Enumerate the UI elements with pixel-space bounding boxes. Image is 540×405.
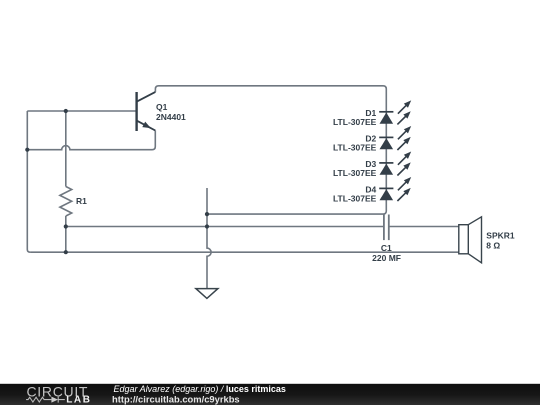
svg-text:C1: C1 <box>381 243 392 253</box>
svg-text:LTL-307EE: LTL-307EE <box>333 168 377 178</box>
junction dot (base / R1 top) <box>64 109 68 113</box>
transistor Q1 <box>137 92 156 131</box>
junction dot (LED return / ground stub) <box>205 212 209 216</box>
wire emitter to left rail with hop over R1 <box>27 131 155 150</box>
speaker SPKR1 <box>459 217 482 263</box>
logo diode triangle <box>51 397 58 403</box>
svg-text:SPKR1: SPKR1 <box>486 231 515 241</box>
LED D1 <box>379 100 411 124</box>
capacitor C1 <box>384 215 389 241</box>
LED D2 <box>379 126 411 150</box>
wire R1 bottom lead <box>65 216 67 252</box>
LED D4 <box>379 177 411 201</box>
wire left vertical rail <box>27 111 30 252</box>
junction dot (R1 / bottom rail) <box>64 250 68 254</box>
wire LED string vertical <box>207 112 386 214</box>
wire ground stub vertical with hop over bottom rail <box>207 188 211 289</box>
svg-text:2N4401: 2N4401 <box>156 112 186 122</box>
wire base (left vertical to Q1 base) <box>27 110 136 112</box>
svg-text:Q1: Q1 <box>156 102 168 112</box>
LED D3 <box>379 152 411 176</box>
svg-text:220 MF: 220 MF <box>372 253 401 263</box>
wire collector top rail to LED string <box>155 86 386 112</box>
wire ground row (R1 bottom to C1 left plate) <box>66 226 384 228</box>
svg-text:LTL-307EE: LTL-307EE <box>333 143 377 153</box>
junction dot (R1 bottom / ground row) <box>64 224 68 228</box>
logo squiggle (resistor + diode) <box>26 397 65 403</box>
junction dot (ground row / ground stub) <box>205 224 209 228</box>
wire bottom rail to speaker <box>30 251 459 253</box>
svg-text:LTL-307EE: LTL-307EE <box>333 194 377 204</box>
footer bar <box>0 384 540 405</box>
ground <box>196 289 218 299</box>
wire C1 right plate to speaker <box>389 226 459 228</box>
svg-text:LTL-307EE: LTL-307EE <box>333 117 377 127</box>
svg-text:8 Ω: 8 Ω <box>486 241 500 251</box>
junction dot (emitter / left rail) <box>25 148 29 152</box>
svg-text:LAB: LAB <box>66 395 91 405</box>
svg-text:http://circuitlab.com/c9yrkbs: http://circuitlab.com/c9yrkbs <box>112 393 240 404</box>
wire R1 top lead <box>65 111 67 187</box>
svg-text:R1: R1 <box>76 196 87 206</box>
resistor R1 <box>60 187 72 216</box>
